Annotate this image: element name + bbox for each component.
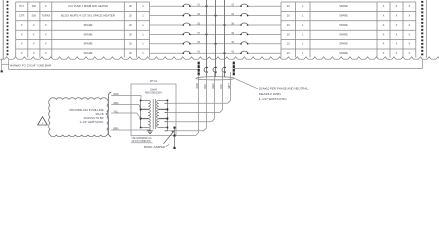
svg-text:ACROSS TO BR: ACROSS TO BR	[84, 117, 104, 120]
wire secondary interconnect bus	[166, 100, 168, 130]
node left panel-schedule table grid	[16, 2, 150, 58]
svg-text:ORG: ORG	[113, 102, 119, 105]
svg-text:MT-01: MT-01	[150, 80, 158, 83]
svg-text:SPARE: SPARE	[339, 4, 348, 8]
node revision cloud	[49, 98, 109, 137]
svg-text:SPARE: SPARE	[339, 14, 348, 18]
svg-text:SPARE: SPARE	[339, 42, 348, 46]
svg-text:400: 400	[32, 4, 37, 8]
svg-text:X: X	[45, 32, 47, 36]
wire sheet tear/break zigzag line	[0, 57, 439, 59]
node phase tap dot row 1	[205, 5, 207, 7]
svg-text:X: X	[409, 42, 411, 46]
svg-text:SPARE: SPARE	[339, 32, 348, 36]
svg-text:X: X	[21, 42, 23, 46]
breaker CB42 (right, circuit 42)	[240, 51, 248, 54]
wire circuit row 1 left segment	[150, 5, 281, 7]
svg-text:WHT: WHT	[229, 83, 231, 89]
svg-text:X: X	[409, 32, 411, 36]
breaker CB41 (left, circuit 41)	[183, 51, 191, 54]
breaker CB33 (left, circuit 33)	[183, 14, 191, 17]
node left-pointing brace	[106, 92, 111, 136]
node right panel-schedule table grid	[281, 2, 416, 58]
svg-text:GRN: GRN	[113, 93, 119, 96]
node primary terminal dots	[140, 100, 142, 129]
node phase tap dot row 6	[223, 52, 225, 54]
svg-text:#4AWG TO 2'X1/4" GND BAR: #4AWG TO 2'X1/4" GND BAR	[10, 64, 51, 68]
svg-text:BRN: BRN	[113, 127, 118, 130]
wire circuit row 4 left segment	[150, 33, 281, 35]
wire gnd riser	[8, 59, 10, 69]
wire secondary phase taps	[165, 103, 177, 131]
svg-text:X: X	[383, 32, 385, 36]
right binder square marks	[421, 1, 423, 55]
wire feeder conductor BLK drop	[165, 72, 207, 131]
node bond jumper slash with arrowhead	[164, 131, 175, 144]
node bond terminal dots	[173, 127, 175, 149]
svg-text:BLDG MURS 4' (37.5K) SPACE HEA: BLDG MURS 4' (37.5K) SPACE HEATER	[61, 14, 115, 18]
wire circuit row 3 left segment	[150, 24, 281, 26]
wire right sheet edge	[425, 0, 427, 58]
node enclosure wall bar (right)	[233, 62, 235, 76]
node left table cell text	[19, 4, 144, 55]
node bushing arc on phase wire x=206.5	[204, 67, 208, 73]
wire primary internal diagonals	[137, 96, 141, 119]
svg-text:X: X	[383, 23, 385, 27]
transformer secondary winding S2	[157, 110, 159, 119]
breaker CB37 (left, circuit 37)	[183, 32, 191, 35]
wire gnd label stub	[2, 63, 10, 65]
svg-text:X: X	[396, 4, 398, 8]
wire left sheet edge	[2, 0, 4, 59]
wire feeder conductor BLU drop	[165, 72, 223, 113]
svg-text:X: X	[33, 51, 35, 55]
svg-text:X: X	[396, 51, 398, 55]
svg-text:1EA#10 PER PHASE AND NEUTRAL,: 1EA#10 PER PHASE AND NEUTRAL,	[259, 87, 309, 91]
svg-text:X: X	[396, 42, 398, 46]
node lug note box	[131, 142, 153, 144]
node phase tap dot row 2	[214, 15, 216, 17]
svg-text:X: X	[396, 14, 398, 18]
svg-text:RED: RED	[213, 83, 215, 88]
wire primary interconnect bus	[140, 100, 142, 127]
svg-text:X: X	[396, 23, 398, 27]
ground symbol	[147, 128, 153, 134]
text BOND JUMPER with leader	[144, 144, 169, 149]
wire neutral riser at right	[422, 59, 424, 69]
svg-text:X: X	[383, 4, 385, 8]
node bushing arc on phase wire x=224.5	[222, 67, 226, 73]
svg-text:X: X	[396, 32, 398, 36]
svg-text:X: X	[409, 4, 411, 8]
svg-text:6EA#10 GND: 6EA#10 GND	[259, 92, 281, 96]
wire primary lead ORG	[111, 104, 139, 106]
wire circuit row 5 left segment	[150, 43, 281, 45]
svg-text:LCH PUMP 4 BOMB AND HEATER: LCH PUMP 4 BOMB AND HEATER	[68, 4, 108, 8]
transformer primary winding P1	[148, 100, 150, 109]
breaker CB36 (right, circuit 36)	[240, 23, 248, 26]
wire BRN to ground stub	[149, 129, 151, 132]
svg-text:X: X	[45, 23, 47, 27]
svg-text:SPARE: SPARE	[84, 42, 93, 46]
wire neutral run to right	[234, 68, 423, 70]
svg-text:X: X	[409, 23, 411, 27]
svg-text:1-1/2" EMT/LFNC: 1-1/2" EMT/LFNC	[259, 97, 287, 101]
wire circuit row 6 left segment	[150, 52, 281, 54]
wire neutral-ground bond	[174, 128, 176, 149]
wire primary lead GRN	[111, 95, 141, 97]
breaker CB34 (right, circuit 34)	[240, 14, 248, 17]
svg-text:500: 500	[32, 14, 37, 18]
svg-text:X: X	[383, 14, 385, 18]
wire phase bus C (vertical)	[224, 0, 226, 77]
node transformer core	[153, 99, 155, 129]
wire phase bus B (vertical)	[215, 0, 217, 77]
warning triangle delta-1	[38, 117, 48, 126]
svg-text:SPARE: SPARE	[84, 32, 93, 36]
transformer primary winding P2	[148, 110, 150, 119]
svg-text:TURAS: TURAS	[41, 14, 50, 18]
svg-text:1-1/4" EMT/LFNC: 1-1/4" EMT/LFNC	[80, 121, 104, 124]
left binder square marks	[7, 1, 9, 55]
svg-text:X: X	[33, 32, 35, 36]
svg-text:X: X	[45, 4, 47, 8]
svg-text:X: X	[21, 51, 23, 55]
svg-text:BLU: BLU	[221, 84, 223, 89]
svg-text:X: X	[33, 23, 35, 27]
transformer secondary winding S3	[157, 119, 159, 128]
svg-text:SPARE: SPARE	[339, 51, 348, 55]
node phase tap dot row 3	[223, 24, 225, 26]
node bushing arc on phase wire x=215.5	[213, 67, 217, 73]
breaker CB35 (left, circuit 35)	[183, 23, 191, 26]
svg-text:X: X	[383, 51, 385, 55]
svg-text:X: X	[21, 23, 23, 27]
svg-text:X: X	[33, 42, 35, 46]
svg-text:BLK: BLK	[205, 84, 207, 89]
svg-text:X: X	[21, 32, 23, 36]
svg-text:480-208/120V: 480-208/120V	[145, 92, 162, 95]
svg-text:SPARE: SPARE	[84, 23, 93, 27]
svg-text:30A CB: 30A CB	[95, 113, 104, 116]
node gnd bar terminal	[1, 70, 3, 72]
wire gnd-bar drop at sheet edge	[1, 59, 3, 70]
wire feeder conductor WHT drop	[165, 72, 231, 103]
wire feeder conductor GRN drop	[175, 75, 199, 136]
breaker CB31 (left, circuit 31)	[183, 4, 191, 7]
node secondary terminal dots	[167, 100, 169, 129]
svg-text:SPARE: SPARE	[84, 51, 93, 55]
node phase tap dot row 5	[214, 43, 216, 45]
svg-text:X: X	[409, 14, 411, 18]
svg-text:X: X	[45, 51, 47, 55]
transformer secondary winding S1	[157, 100, 159, 109]
wire primary lead YEL	[111, 112, 137, 114]
breaker CB38 (right, circuit 38)	[240, 32, 248, 35]
svg-text:YEL: YEL	[114, 110, 119, 113]
wire feeder conductor RED drop	[165, 72, 215, 122]
wire primary lead BRN	[111, 129, 150, 131]
node right table cell text	[287, 4, 411, 55]
node phase tap dot row 4	[205, 33, 207, 35]
svg-text:CTR: CTR	[19, 14, 24, 18]
wire circuit row 2 left segment	[150, 15, 281, 17]
node enclosure wall bar (left)	[198, 62, 200, 76]
svg-text:PLT: PLT	[19, 4, 24, 8]
breaker CB32 (right, circuit 32)	[240, 4, 248, 7]
svg-text:BOND JUMPER: BOND JUMPER	[144, 146, 165, 149]
breaker CB39 (left, circuit 39)	[183, 42, 191, 45]
text feeder note	[259, 87, 309, 101]
wire leader to feeder note	[235, 79, 258, 89]
text cloud note	[70, 109, 104, 124]
transformer primary winding P3	[148, 119, 150, 128]
wire phase bus A (vertical)	[206, 0, 208, 77]
transformer T1 enclosure box	[131, 84, 176, 136]
svg-text:ON (FUT) CONNECTION: ON (FUT) CONNECTION	[132, 141, 151, 143]
text USE COMPRESSED LUG note	[132, 138, 152, 143]
svg-text:X: X	[45, 42, 47, 46]
svg-text:USE COMPRESSED LUG: USE COMPRESSED LUG	[132, 138, 152, 140]
svg-text:X: X	[409, 51, 411, 55]
svg-text:GRN: GRN	[197, 83, 199, 88]
node conduit ellipse	[196, 77, 235, 80]
wire ground conductor to enclosure	[9, 68, 199, 70]
svg-text:X: X	[383, 42, 385, 46]
svg-text:PROVIDE #10 IN MILLINE: PROVIDE #10 IN MILLINE	[70, 109, 104, 112]
svg-text:SPARE: SPARE	[339, 23, 348, 27]
breaker CB40 (right, circuit 40)	[240, 42, 248, 45]
